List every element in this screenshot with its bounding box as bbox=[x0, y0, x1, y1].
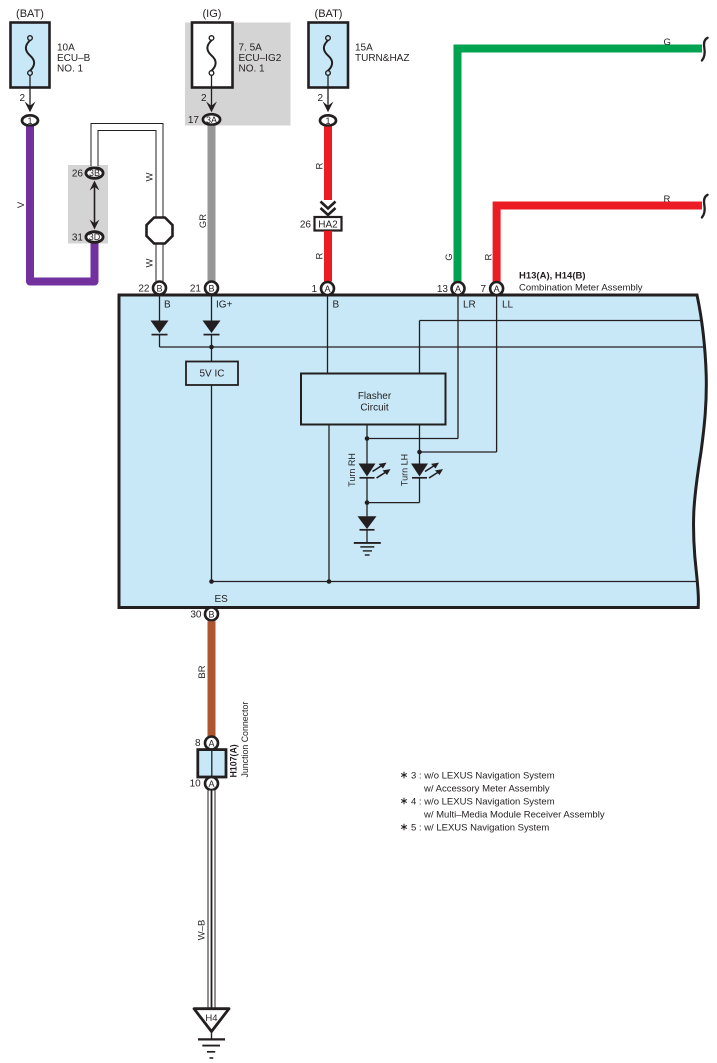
break symbol on wire R bbox=[702, 195, 708, 218]
svg-text:22: 22 bbox=[138, 284, 150, 295]
fuse F3 15A TURN&HAZ (BAT) bbox=[309, 8, 410, 88]
svg-text:3D: 3D bbox=[89, 232, 101, 242]
svg-text:w/ Multi–Media Module Receiver: w/ Multi–Media Module Receiver Assembly bbox=[423, 810, 605, 821]
fuse F2 7.5A ECU-IG2 (IG) bbox=[192, 8, 282, 88]
wire G (green) from terminal 13 to right edge bbox=[444, 37, 702, 284]
svg-text:Junction Connector: Junction Connector bbox=[240, 702, 250, 778]
wire from terminal 7 (LL) down and left to turn LH node bbox=[420, 296, 497, 453]
svg-text:G: G bbox=[664, 37, 671, 48]
svg-text:H4: H4 bbox=[205, 1013, 217, 1024]
internal bus from diodes to right edge bbox=[160, 346, 705, 348]
svg-text:B: B bbox=[333, 300, 340, 311]
svg-text:(BAT): (BAT) bbox=[16, 8, 44, 20]
net from flasher top to right edge bbox=[420, 321, 704, 374]
note asterisk 3 bbox=[401, 771, 555, 795]
svg-text:5 : w/ LEXUS Navigation System: 5 : w/ LEXUS Navigation System bbox=[411, 823, 549, 834]
junction dot ES at flasher line bbox=[327, 579, 332, 584]
wire from terminal 21 to diode D2 bbox=[211, 296, 213, 321]
svg-text:R: R bbox=[484, 253, 495, 260]
wire flasher bottom to ES bus bbox=[328, 425, 330, 582]
svg-text:31: 31 bbox=[72, 233, 84, 244]
terminal 7(A) of meter bbox=[480, 282, 503, 295]
svg-text:21: 21 bbox=[190, 284, 202, 295]
svg-text:NO. 1: NO. 1 bbox=[57, 64, 84, 75]
svg-text:30: 30 bbox=[190, 610, 202, 621]
terminal 13(A) of meter bbox=[437, 282, 465, 295]
svg-text:W: W bbox=[145, 258, 156, 267]
internal link arrow between 3B and 3D bbox=[90, 181, 100, 230]
svg-text:ES: ES bbox=[215, 594, 229, 605]
diode D3 bbox=[358, 516, 377, 542]
arrow into connector 1 bbox=[25, 102, 36, 113]
connector terminal 1 (below fuse F3) bbox=[320, 115, 336, 126]
combination meter assembly box U1 bbox=[119, 295, 706, 608]
wire GR (gray) from 3A to terminal 21 bbox=[198, 126, 212, 281]
wire V (violet) from terminal 1 to connector 3D bbox=[16, 127, 95, 282]
svg-text:13: 13 bbox=[437, 284, 449, 295]
svg-text:A: A bbox=[208, 739, 214, 749]
wire LEDs to diode D3 bbox=[367, 478, 420, 517]
wire from terminal 1 (B) to flasher circuit bbox=[327, 296, 329, 374]
junction dot turn RH node bbox=[365, 436, 370, 441]
wire from 5V IC down to ES bus bbox=[211, 385, 213, 582]
wire from terminal 22 to diode D1 bbox=[159, 296, 161, 321]
svg-text:B: B bbox=[208, 610, 214, 620]
svg-text:R: R bbox=[315, 162, 326, 169]
svg-text:LL: LL bbox=[502, 300, 514, 311]
diode D1 bbox=[151, 321, 169, 348]
svg-text:5V IC: 5V IC bbox=[199, 369, 224, 380]
wire from fuse F3 pin 2 bbox=[317, 75, 328, 108]
svg-text:7. 5A: 7. 5A bbox=[239, 43, 263, 54]
junction dot turn LH node bbox=[417, 450, 422, 455]
wire BR (brown) from terminal 30 to junction connector bbox=[197, 621, 212, 736]
terminal 30(B) of meter (bottom) bbox=[190, 608, 218, 621]
junction dot below turn RH LED bbox=[365, 500, 370, 505]
terminal 8(A) of junction connector bbox=[195, 737, 218, 750]
noise filter (octagon) bbox=[147, 218, 173, 244]
svg-text:7: 7 bbox=[480, 284, 486, 295]
arrow into connector 1 bbox=[323, 102, 334, 113]
svg-text:BR: BR bbox=[197, 665, 208, 678]
svg-text:TURN&HAZ: TURN&HAZ bbox=[355, 53, 409, 64]
svg-text:2: 2 bbox=[19, 93, 25, 104]
splice arrows into HA2 bbox=[321, 202, 336, 216]
terminal 22(B) of meter bbox=[138, 282, 166, 295]
svg-text:W–B: W–B bbox=[197, 920, 208, 941]
ground H4 bbox=[194, 1009, 229, 1058]
junction dot ES at IG+ line bbox=[209, 579, 214, 584]
LED turn LH bbox=[400, 454, 444, 486]
svg-text:26: 26 bbox=[72, 169, 84, 180]
fuse F1 10A ECU-B (BAT) bbox=[11, 8, 91, 88]
svg-text:3B: 3B bbox=[89, 168, 100, 178]
svg-text:NO. 1: NO. 1 bbox=[239, 64, 266, 75]
svg-text:ECU–B: ECU–B bbox=[57, 53, 91, 64]
connector terminal 3D pin 31 bbox=[72, 232, 103, 244]
wire from terminal 13 (LR) down and left to turn RH node bbox=[367, 296, 458, 439]
svg-text:Turn RH: Turn RH bbox=[347, 453, 357, 487]
net ES bus bbox=[212, 582, 698, 606]
break symbol on wire G bbox=[702, 38, 708, 61]
svg-text:8: 8 bbox=[195, 738, 201, 749]
svg-text:W: W bbox=[145, 172, 156, 181]
svg-text:15A: 15A bbox=[355, 43, 373, 54]
svg-text:G: G bbox=[444, 253, 455, 260]
svg-text:H13(A), H14(B): H13(A), H14(B) bbox=[519, 271, 586, 282]
terminal 10(A) of junction connector bbox=[190, 777, 218, 790]
wire from fuse F2 pin 2 bbox=[201, 75, 212, 108]
svg-text:IG+: IG+ bbox=[216, 300, 233, 311]
svg-text:(BAT): (BAT) bbox=[315, 8, 343, 20]
connector terminal 1 (below fuse F1) bbox=[22, 115, 38, 126]
svg-text:R: R bbox=[664, 194, 671, 205]
gray block behind IG fuse bbox=[185, 23, 291, 126]
5V IC box bbox=[186, 362, 238, 386]
svg-text:Circuit: Circuit bbox=[360, 403, 389, 414]
junction connector H107(A) bbox=[198, 702, 250, 778]
connector terminal 3A pin 17 bbox=[188, 114, 220, 126]
svg-text:LR: LR bbox=[463, 300, 476, 311]
svg-text:B: B bbox=[208, 284, 214, 294]
svg-text:2: 2 bbox=[201, 93, 207, 104]
wire flasher to turn RH LED bbox=[366, 425, 368, 464]
note asterisk 4 bbox=[401, 797, 605, 821]
svg-text:w/ Accessory Meter Assembly: w/ Accessory Meter Assembly bbox=[423, 784, 550, 795]
connector name H13(A), H14(B) bbox=[519, 271, 643, 294]
connector terminal 3B pin 26 bbox=[72, 168, 103, 180]
svg-text:1: 1 bbox=[325, 116, 330, 126]
svg-text:A: A bbox=[455, 284, 461, 294]
flasher circuit box bbox=[301, 374, 446, 425]
splice HA2 pin 26 bbox=[300, 217, 342, 231]
terminal 21(B) of meter bbox=[190, 282, 218, 295]
svg-text:17: 17 bbox=[188, 115, 200, 126]
wire flasher to turn LH LED bbox=[419, 425, 421, 464]
svg-text:(IG): (IG) bbox=[203, 8, 222, 20]
note asterisk 5 bbox=[401, 823, 549, 834]
svg-text:10: 10 bbox=[190, 779, 202, 790]
wire W-B (white-black) from terminal 10 to ground H4 bbox=[197, 791, 212, 1010]
diode D2 bbox=[203, 321, 221, 362]
svg-text:GR: GR bbox=[198, 214, 209, 228]
svg-text:Flasher: Flasher bbox=[358, 391, 392, 402]
svg-text:26: 26 bbox=[300, 220, 312, 231]
svg-text:10A: 10A bbox=[57, 43, 75, 54]
svg-text:HA2: HA2 bbox=[318, 220, 338, 231]
connector block J1 (gray, 3B/3D) bbox=[68, 165, 108, 244]
svg-text:B: B bbox=[156, 284, 162, 294]
svg-text:A: A bbox=[494, 284, 500, 294]
svg-text:R: R bbox=[315, 252, 326, 259]
wire from fuse F1 pin 2 bbox=[19, 75, 30, 108]
wire R (red) from terminal 1 to HA2 bbox=[315, 127, 329, 201]
svg-text:V: V bbox=[16, 201, 27, 208]
wire R (red) from terminal 7 to right edge bbox=[484, 194, 703, 284]
wire R (red) from HA2 to terminal 1(A) bbox=[315, 231, 329, 282]
svg-text:ECU–IG2: ECU–IG2 bbox=[239, 53, 282, 64]
terminal 1(A) of meter bbox=[311, 282, 334, 295]
svg-text:3A: 3A bbox=[206, 115, 217, 125]
svg-text:1: 1 bbox=[27, 116, 32, 126]
svg-text:1: 1 bbox=[311, 284, 317, 295]
svg-text:Turn LH: Turn LH bbox=[400, 454, 410, 486]
wire W (white) from 3B over to noise filter and terminal 22 bbox=[95, 127, 160, 281]
svg-text:A: A bbox=[208, 779, 214, 789]
LED turn RH bbox=[347, 453, 391, 487]
arrow into connector 3A bbox=[206, 102, 217, 113]
svg-text:H107(A): H107(A) bbox=[229, 744, 239, 777]
internal ground bbox=[354, 543, 381, 555]
svg-text:3 : w/o LEXUS Navigation Syste: 3 : w/o LEXUS Navigation System bbox=[411, 771, 555, 782]
svg-text:B: B bbox=[164, 300, 171, 311]
junction dot on bus at IG+ line bbox=[209, 345, 214, 350]
svg-text:Combination Meter Assembly: Combination Meter Assembly bbox=[519, 283, 643, 294]
svg-text:A: A bbox=[324, 284, 330, 294]
svg-text:2: 2 bbox=[317, 93, 323, 104]
svg-text:4 : w/o LEXUS Navigation Syste: 4 : w/o LEXUS Navigation System bbox=[411, 797, 555, 808]
